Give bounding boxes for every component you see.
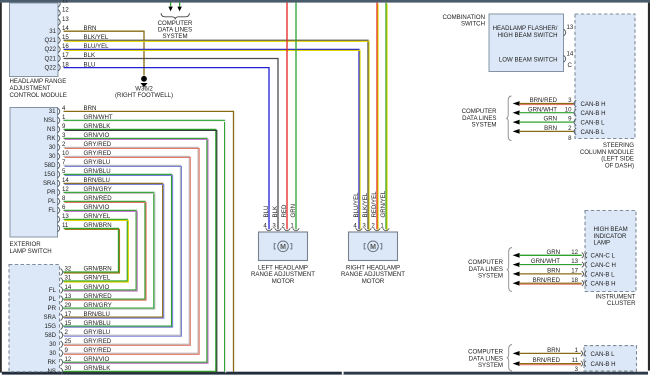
svg-text:CAN-B L: CAN-B L bbox=[591, 271, 616, 278]
wire GRN from top to left motor pin 1 bbox=[295, 3, 297, 230]
svg-text:BRN: BRN bbox=[547, 347, 560, 354]
svg-text:1: 1 bbox=[380, 223, 384, 230]
node: computer data lines system (instrument cluster) bbox=[468, 248, 512, 292]
svg-text:30: 30 bbox=[49, 153, 56, 160]
svg-text:BLU: BLU bbox=[84, 61, 96, 68]
svg-text:PL: PL bbox=[48, 198, 56, 205]
pin 4 of exterior lamp switch (BRN) bbox=[49, 105, 66, 115]
wire GRN to instrument cluster pin 12 (CAN-C L) bbox=[513, 249, 616, 260]
svg-text:GRN/YEL: GRN/YEL bbox=[84, 213, 111, 220]
ground W36/2 (right footwell) bbox=[115, 76, 173, 99]
pin 13 of control module bbox=[58, 16, 69, 26]
pin 18 of control module bbox=[44, 61, 69, 71]
svg-text:EXTERIOR: EXTERIOR bbox=[10, 241, 42, 248]
svg-text:SYSTEM: SYSTEM bbox=[162, 33, 187, 40]
svg-text:GRN/WHT: GRN/WHT bbox=[528, 106, 557, 113]
svg-text:SYSTEM: SYSTEM bbox=[478, 362, 503, 369]
svg-text:GRN: GRN bbox=[290, 204, 297, 218]
switch: exterior lamp switch bbox=[10, 108, 58, 256]
svg-text:GRN/GRY: GRN/GRY bbox=[84, 302, 112, 309]
svg-text:32: 32 bbox=[65, 266, 72, 273]
svg-text:GRN/WHT: GRN/WHT bbox=[531, 258, 560, 265]
svg-text:10: 10 bbox=[565, 106, 572, 113]
svg-text:GRN/BRN: GRN/BRN bbox=[84, 266, 112, 273]
pin 2 of right motor (RED/YEL) bbox=[371, 191, 380, 231]
svg-text:58D: 58D bbox=[44, 162, 56, 169]
svg-text:BRN: BRN bbox=[544, 125, 557, 132]
svg-text:LAMP SWITCH: LAMP SWITCH bbox=[10, 248, 52, 255]
pin 17 of control module bbox=[44, 52, 69, 62]
svg-text:15: 15 bbox=[65, 320, 72, 327]
wire GRY/RED from exterior lamp switch pin 10 to lower switch section pin 25 bbox=[63, 150, 190, 345]
svg-text:BLK: BLK bbox=[84, 52, 96, 59]
pin 17 of exterior lamp switch lower section (BRN/BLU) bbox=[43, 311, 109, 321]
svg-text:BRN/BLU: BRN/BLU bbox=[84, 311, 110, 318]
pin 3 of bottom module bbox=[575, 366, 579, 373]
svg-text:15G: 15G bbox=[44, 323, 56, 330]
svg-text:SWITCH: SWITCH bbox=[461, 20, 485, 27]
pin 30 of exterior lamp switch lower section (GRN/BLK) bbox=[48, 365, 111, 375]
svg-text:GRN/VIO: GRN/VIO bbox=[84, 356, 110, 363]
pin 6 of exterior lamp switch (GRN/VIO) bbox=[48, 204, 66, 214]
pin 3 of right motor (BLK/YEL) bbox=[362, 192, 371, 231]
wire BRN from exterior lamp switch pin 4 downward off page bbox=[64, 105, 234, 372]
svg-text:GRY/RED: GRY/RED bbox=[84, 150, 112, 157]
svg-text:Q22: Q22 bbox=[44, 64, 56, 71]
svg-text:18: 18 bbox=[571, 277, 578, 284]
svg-text:GRN/VIO: GRN/VIO bbox=[84, 284, 110, 291]
module: headlamp range adjustment control module bbox=[10, 3, 67, 99]
pin 13 of exterior lamp switch lower section (GRN/RED) bbox=[49, 293, 113, 303]
svg-text:GRN/GRY: GRN/GRY bbox=[84, 186, 112, 193]
svg-text:BRN/RED: BRN/RED bbox=[530, 97, 558, 104]
wire BRN/BLU from exterior lamp switch pin 14 to lower switch section pin 17 bbox=[63, 177, 164, 318]
svg-text:GRN/BRN: GRN/BRN bbox=[84, 222, 112, 229]
pin 14 of control module bbox=[49, 25, 69, 35]
svg-text:NS: NS bbox=[48, 368, 56, 375]
svg-text:4: 4 bbox=[353, 223, 357, 230]
wire BRN/RED to bottom module pin 11 (CAN-B H) bbox=[513, 357, 616, 368]
svg-text:11: 11 bbox=[62, 0, 69, 5]
module (dashed): instrument cluster bbox=[585, 211, 636, 308]
pin 13 of combination switch bbox=[564, 24, 574, 36]
svg-text:31: 31 bbox=[49, 108, 56, 115]
pin 15 of control module bbox=[44, 34, 69, 44]
svg-text:CAN-C L: CAN-C L bbox=[591, 253, 616, 260]
svg-text:BRN: BRN bbox=[547, 268, 560, 275]
svg-text:RK: RK bbox=[47, 135, 55, 142]
module (dashed): can bus module (bottom right, cut off) bbox=[584, 346, 637, 371]
svg-text:RED: RED bbox=[281, 204, 288, 217]
svg-text:12: 12 bbox=[65, 356, 72, 363]
wire BRN/RED to instrument cluster pin 18 (CAN-B H) bbox=[513, 277, 616, 288]
svg-text:PL: PL bbox=[49, 296, 57, 303]
svg-text:HEADLAMP RANGE: HEADLAMP RANGE bbox=[10, 78, 67, 85]
svg-text:12: 12 bbox=[571, 249, 578, 256]
svg-text:11: 11 bbox=[572, 357, 579, 364]
svg-text:3: 3 bbox=[362, 223, 366, 230]
svg-text:30: 30 bbox=[49, 350, 56, 357]
svg-text:CAN-B H: CAN-B H bbox=[591, 361, 616, 368]
svg-text:14: 14 bbox=[567, 51, 574, 58]
svg-text:BRN/BLU: BRN/BLU bbox=[84, 177, 110, 184]
pin 4 of right motor (BLU/YEL) bbox=[353, 192, 362, 231]
svg-text:PR: PR bbox=[47, 189, 56, 196]
svg-text:MOTOR: MOTOR bbox=[272, 278, 295, 285]
svg-text:NSL: NSL bbox=[44, 117, 56, 124]
svg-text:BLK/YEL: BLK/YEL bbox=[362, 192, 369, 217]
svg-text:CONTROL MODULE: CONTROL MODULE bbox=[10, 92, 67, 99]
svg-text:SYSTEM: SYSTEM bbox=[471, 122, 496, 129]
svg-text:M: M bbox=[370, 244, 376, 251]
svg-text:GRY/RED: GRY/RED bbox=[84, 347, 112, 354]
pin 1 of right motor (GRN/YEL) bbox=[380, 190, 389, 231]
svg-text:BRN: BRN bbox=[84, 105, 97, 112]
wire GRN/BLK from exterior lamp switch pin 9 to lower switch section pin 30 bbox=[63, 123, 217, 372]
svg-text:12: 12 bbox=[62, 7, 69, 14]
wire GRN/VIO from exterior lamp switch pin 6 to lower switch section pin 14 bbox=[63, 204, 137, 291]
svg-text:4: 4 bbox=[263, 223, 267, 230]
svg-text:GRN/YEL: GRN/YEL bbox=[380, 190, 387, 217]
svg-text:BRN/RED: BRN/RED bbox=[533, 277, 561, 284]
svg-text:SYSTEM: SYSTEM bbox=[478, 273, 503, 280]
pin 12 of exterior lamp switch lower section (GRN/VIO) bbox=[48, 356, 110, 366]
svg-text:GRN/BLU: GRN/BLU bbox=[84, 320, 111, 327]
wire BRN/RED to steering column module pin 3 (CAN-B H) bbox=[513, 97, 606, 108]
svg-text:ADJUSTMENT: ADJUSTMENT bbox=[10, 85, 51, 92]
svg-text:GRN/BLU: GRN/BLU bbox=[84, 168, 111, 175]
pin 5 of exterior lamp switch (GRN/BLU) bbox=[44, 168, 66, 178]
svg-text:GRN: GRN bbox=[543, 116, 557, 123]
svg-text:13: 13 bbox=[65, 293, 72, 300]
lamp: high beam indicator lamp bbox=[594, 226, 628, 247]
pin 31 of exterior lamp switch lower section (GRN/YEL) bbox=[61, 275, 111, 285]
svg-text:GRN/RED: GRN/RED bbox=[84, 195, 113, 202]
svg-text:GRN/WHT: GRN/WHT bbox=[84, 114, 113, 121]
svg-text:2: 2 bbox=[371, 223, 375, 230]
terminal C of combination switch bbox=[568, 62, 573, 69]
svg-text:30: 30 bbox=[49, 341, 56, 348]
pin 32 of exterior lamp switch lower section (GRN/BRN) bbox=[61, 266, 112, 276]
wire GRN/WHT from exterior lamp switch pin 1 downward off page bbox=[64, 114, 226, 373]
svg-text:3: 3 bbox=[272, 223, 276, 230]
svg-text:CAN-C H: CAN-C H bbox=[591, 262, 616, 269]
wire GRN/BLU from exterior lamp switch pin 5 to lower switch section pin 15 bbox=[63, 168, 173, 327]
pin 7 of exterior lamp switch (GRY/BLU) bbox=[44, 159, 66, 169]
pin 2 of exterior lamp switch (GRY/RED) bbox=[49, 141, 66, 151]
svg-text:58D: 58D bbox=[45, 332, 57, 339]
pin 2 of exterior lamp switch lower section (GRY/BLU) bbox=[45, 329, 110, 339]
wire BRN from control module pin 14 to ground W36/2 bbox=[64, 25, 145, 76]
pin 9 of exterior lamp switch (GRN/BLK) bbox=[47, 123, 66, 133]
svg-text:2: 2 bbox=[281, 223, 285, 230]
svg-text:PR: PR bbox=[48, 305, 57, 312]
wire GRN/BRN from exterior lamp switch pin 11 to lower switch section pin 32 bbox=[63, 222, 120, 273]
pin 3 of left motor (BLK) bbox=[272, 206, 281, 231]
pin 15 of exterior lamp switch lower section (GRN/BLU) bbox=[44, 320, 110, 330]
pin 14 of combination switch bbox=[564, 51, 574, 63]
switch section (dashed): exterior lamp switch lower connector bbox=[9, 265, 60, 372]
svg-text:GRY/RED: GRY/RED bbox=[84, 141, 112, 148]
svg-text:GRN/RED: GRN/RED bbox=[84, 293, 113, 300]
svg-text:GRN/YEL: GRN/YEL bbox=[84, 275, 111, 282]
pin 11 of control module bbox=[58, 0, 69, 7]
svg-text:BLK: BLK bbox=[272, 206, 279, 218]
svg-text:CAN-B L: CAN-B L bbox=[581, 129, 606, 136]
wire GRY/BLU from exterior lamp switch pin 7 to lower switch section pin 2 bbox=[63, 159, 181, 336]
svg-text:29: 29 bbox=[65, 302, 72, 309]
svg-text:CAN-B H: CAN-B H bbox=[581, 101, 606, 108]
wire GRY/RED from exterior lamp switch pin 2 to lower switch section pin 9 bbox=[63, 141, 199, 354]
svg-text:BRN: BRN bbox=[84, 25, 97, 32]
wire RED from top to left motor pin 2 bbox=[286, 3, 288, 230]
svg-text:LOW BEAM SWITCH: LOW BEAM SWITCH bbox=[499, 57, 558, 64]
pin 2 of left motor (RED) bbox=[281, 204, 290, 231]
svg-text:GRN/VIO: GRN/VIO bbox=[84, 204, 110, 211]
svg-text:OF DASH): OF DASH) bbox=[605, 162, 634, 169]
svg-text:GRN/BLK: GRN/BLK bbox=[84, 123, 111, 130]
svg-text:CAN-B H: CAN-B H bbox=[581, 110, 606, 117]
svg-text:SRA: SRA bbox=[43, 180, 56, 187]
svg-text:13: 13 bbox=[571, 258, 578, 265]
svg-text:GRN: GRN bbox=[546, 249, 560, 256]
svg-text:15G: 15G bbox=[44, 171, 56, 178]
pin 3 of exterior lamp switch (GRN/VIO) bbox=[47, 132, 66, 142]
svg-text:RED/YEL: RED/YEL bbox=[371, 191, 378, 218]
wire BLU/YEL from control module pin 16 to right motor pin 4 bbox=[64, 43, 361, 230]
wire GRN/YEL from top to right motor pin 1 bbox=[386, 3, 387, 231]
svg-text:1: 1 bbox=[290, 223, 294, 230]
svg-text:GRN/BLK: GRN/BLK bbox=[84, 365, 111, 372]
pin 11 of exterior lamp switch (GRN/BRN) bbox=[58, 222, 69, 232]
pin 9 of exterior lamp switch lower section (GRY/RED) bbox=[49, 347, 112, 357]
wire BRN to bottom module pin 1 (CAN-B L) bbox=[513, 347, 616, 358]
svg-text:HIGH BEAM SWITCH: HIGH BEAM SWITCH bbox=[498, 32, 558, 39]
pin 25 of exterior lamp switch lower section (GRY/RED) bbox=[49, 338, 112, 348]
pin 4 of left motor (BLU) bbox=[263, 206, 272, 231]
wire BLK/YEL from control module pin 15 to right motor pin 3 bbox=[64, 34, 370, 230]
switch: combination switch bbox=[442, 14, 563, 72]
pin 8 of steering column module bbox=[568, 135, 572, 142]
svg-text:14: 14 bbox=[65, 284, 72, 291]
svg-text:SRA: SRA bbox=[43, 314, 56, 321]
node: computer data lines system (top) bbox=[158, 3, 193, 40]
pin 12 of control module bbox=[58, 7, 69, 17]
svg-text:30: 30 bbox=[49, 144, 56, 151]
pin 14 of exterior lamp switch lower section (GRN/VIO) bbox=[49, 284, 110, 294]
pin 14 of exterior lamp switch (BRN/BLU) bbox=[43, 177, 69, 187]
svg-text:13: 13 bbox=[62, 16, 69, 23]
wire GRN/GRY from exterior lamp switch pin 12 to lower switch section pin 29 bbox=[63, 186, 155, 309]
pin 16 of control module bbox=[44, 43, 69, 53]
svg-text:BLU/YEL: BLU/YEL bbox=[353, 192, 360, 218]
svg-text:Q21: Q21 bbox=[44, 55, 56, 62]
svg-text:FL: FL bbox=[48, 207, 56, 214]
wire GRN/VIO from exterior lamp switch pin 3 to lower switch section pin 12 bbox=[63, 132, 208, 363]
svg-text:Q21: Q21 bbox=[44, 37, 56, 44]
svg-text:BLU: BLU bbox=[263, 206, 270, 218]
node: computer data lines system (steering column) bbox=[462, 96, 512, 141]
pin 29 of exterior lamp switch lower section (GRN/GRY) bbox=[48, 302, 112, 312]
svg-text:GRY/BLU: GRY/BLU bbox=[84, 159, 111, 166]
pin 1 of left motor (GRN) bbox=[290, 204, 299, 231]
svg-text:BRN/RED: BRN/RED bbox=[533, 357, 561, 364]
pin 12 of exterior lamp switch (GRN/GRY) bbox=[47, 186, 69, 196]
svg-text:31: 31 bbox=[49, 28, 56, 35]
wire GRN to steering column module pin 9 (CAN-B L) bbox=[513, 116, 606, 127]
svg-text:FL: FL bbox=[49, 287, 57, 294]
svg-text:BLU/YEL: BLU/YEL bbox=[84, 43, 110, 50]
svg-text:C: C bbox=[568, 62, 573, 69]
svg-text:GRY/BLU: GRY/BLU bbox=[84, 329, 111, 336]
wire BLU from control module pin 18 to left motor pin 4 bbox=[64, 61, 270, 229]
wire GRN/RED from exterior lamp switch pin 8 to lower switch section pin 13 bbox=[63, 195, 146, 300]
wire BRN to instrument cluster pin 17 (CAN-B L) bbox=[513, 268, 616, 279]
svg-text:LAMP: LAMP bbox=[594, 240, 611, 247]
svg-text:GRY/RED: GRY/RED bbox=[84, 338, 112, 345]
svg-text:25: 25 bbox=[65, 338, 72, 345]
pin 8 of exterior lamp switch (GRN/RED) bbox=[48, 195, 66, 205]
module (dashed): steering column module bbox=[575, 14, 635, 169]
svg-text:(RIGHT FOOTWELL): (RIGHT FOOTWELL) bbox=[115, 92, 173, 99]
svg-text:RK: RK bbox=[48, 359, 56, 366]
svg-text:CAN-B L: CAN-B L bbox=[591, 351, 616, 358]
wire GRN/WHT to steering column module pin 10 (CAN-B H) bbox=[513, 106, 606, 117]
svg-text:M: M bbox=[280, 244, 286, 251]
svg-text:17: 17 bbox=[65, 311, 72, 318]
motor: right headlamp range adjustment motor bbox=[341, 232, 405, 285]
svg-text:CAN-B H: CAN-B H bbox=[591, 281, 616, 288]
motor: left headlamp range adjustment motor bbox=[251, 232, 315, 285]
node: computer data lines system (bottom) bbox=[468, 345, 512, 372]
svg-text:GRN/VIO: GRN/VIO bbox=[84, 132, 110, 139]
svg-text:CAN-B L: CAN-B L bbox=[581, 120, 606, 127]
svg-text:MOTOR: MOTOR bbox=[362, 278, 385, 285]
wire RED/YEL from top to right motor pin 2 bbox=[377, 3, 378, 231]
svg-text:31: 31 bbox=[65, 275, 72, 282]
svg-text:13: 13 bbox=[567, 24, 574, 31]
svg-text:NS: NS bbox=[47, 126, 55, 133]
pin 10 of exterior lamp switch (GRY/RED) bbox=[49, 150, 70, 160]
wire BRN to steering column module pin 2 (CAN-B L) bbox=[513, 125, 606, 136]
pin 1 of exterior lamp switch (GRN/WHT) bbox=[44, 114, 66, 124]
svg-text:Q22: Q22 bbox=[44, 46, 56, 53]
wire GRN/WHT to instrument cluster pin 13 (CAN-C H) bbox=[513, 258, 616, 269]
svg-text:30: 30 bbox=[65, 365, 72, 372]
svg-text:BLK/YEL: BLK/YEL bbox=[84, 34, 109, 41]
svg-text:CLUSTER: CLUSTER bbox=[607, 300, 636, 307]
svg-text:17: 17 bbox=[571, 268, 578, 275]
wire GRN/YEL from exterior lamp switch pin 13 to lower switch section pin 31 bbox=[63, 213, 128, 282]
pin 13 of exterior lamp switch (GRN/YEL) bbox=[58, 213, 70, 223]
wire BLK from control module pin 17 to left motor pin 3 bbox=[64, 52, 279, 229]
